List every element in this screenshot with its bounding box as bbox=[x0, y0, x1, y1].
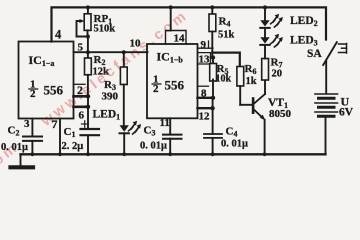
junction pin6 bbox=[86, 105, 90, 109]
capacitor C1 electrolytic bbox=[81, 107, 100, 154]
resistor R6 bbox=[237, 67, 252, 105]
wire switch to battery bbox=[325, 61, 327, 93]
junction LED1 ground rail bbox=[122, 152, 126, 156]
wire pin9 to R6 bbox=[212, 53, 240, 65]
transistor Q1 VT1 bbox=[252, 80, 265, 153]
svg-text:SA: SA bbox=[307, 48, 322, 60]
svg-text:9: 9 bbox=[201, 39, 207, 51]
svg-text:0. 01μ: 0. 01μ bbox=[221, 139, 248, 150]
label IC1-a 1/2 556 bbox=[28, 79, 63, 101]
resistor R3 bbox=[120, 52, 127, 125]
svg-text:12: 12 bbox=[199, 111, 211, 123]
svg-text:2: 2 bbox=[77, 83, 83, 97]
junction pin2 bbox=[86, 94, 90, 98]
junction VT1 emitter ground rail bbox=[263, 152, 267, 156]
svg-text:LED2: LED2 bbox=[290, 15, 318, 28]
watermark corner fragment bbox=[0, 139, 22, 187]
LED1 light arrows bbox=[129, 121, 142, 134]
svg-text:8050: 8050 bbox=[269, 108, 292, 120]
wire pin5 node A horizontal bbox=[74, 51, 148, 53]
svg-text:3: 3 bbox=[24, 118, 30, 130]
resistor R7 bbox=[262, 45, 269, 80]
svg-text:6: 6 bbox=[79, 110, 85, 122]
pin13 tab bbox=[198, 53, 211, 64]
battery U 6V bbox=[315, 94, 338, 153]
junction pin8 bbox=[211, 96, 215, 100]
wire pin3 bbox=[31, 119, 33, 137]
capacitor C2 bbox=[23, 137, 42, 154]
svg-text:10: 10 bbox=[130, 38, 142, 50]
junction C3 ground rail bbox=[168, 152, 172, 156]
LED LED1 bbox=[120, 125, 129, 153]
wire RP1 to node bbox=[87, 37, 89, 53]
IC op U1a body bbox=[19, 42, 74, 119]
watermark www.elecfans.com diagonal bbox=[38, 7, 192, 130]
wire pin12 stub bbox=[198, 107, 213, 109]
svg-text:6V: 6V bbox=[339, 107, 354, 119]
wire pin7 bbox=[59, 119, 61, 154]
svg-text:14: 14 bbox=[174, 33, 186, 45]
resistor R5 bbox=[210, 58, 217, 98]
svg-text:510k: 510k bbox=[94, 24, 116, 35]
junction pin14 rail bbox=[169, 5, 173, 9]
junction RP1 wiper bbox=[86, 35, 90, 39]
LED LED2 bbox=[260, 7, 269, 28]
svg-text:12k: 12k bbox=[93, 67, 110, 78]
junction pin7 ground rail bbox=[58, 152, 62, 156]
svg-text:7: 7 bbox=[52, 117, 58, 131]
LED LED3 bbox=[260, 28, 269, 45]
svg-text:5: 5 bbox=[78, 42, 84, 54]
svg-text:2: 2 bbox=[30, 88, 36, 100]
pin14 tab bbox=[166, 31, 187, 45]
wire pin11 bbox=[169, 118, 171, 134]
wire pin14 bbox=[170, 7, 172, 30]
switch SA contact bbox=[339, 44, 347, 54]
junction R4 rail bbox=[210, 5, 214, 9]
junction node pin5 bbox=[86, 50, 90, 54]
switch SA blade bbox=[323, 42, 337, 65]
junction C1 ground rail bbox=[86, 152, 90, 156]
capacitor C4 bbox=[204, 108, 222, 153]
svg-text:556: 556 bbox=[44, 83, 64, 98]
junction pin13 bbox=[211, 55, 215, 59]
ground bbox=[11, 154, 34, 167]
svg-text:556: 556 bbox=[165, 78, 185, 93]
wire bottom ground rail bbox=[21, 153, 326, 155]
wire pin8 to pin12 bbox=[212, 98, 214, 108]
resistor R4 bbox=[209, 7, 216, 57]
wire pin6 stub bbox=[74, 106, 89, 109]
svg-text:51k: 51k bbox=[218, 30, 235, 41]
LED2 light arrows bbox=[271, 14, 283, 27]
svg-text:2: 2 bbox=[153, 83, 159, 95]
svg-text:0. 01μ: 0. 01μ bbox=[1, 142, 28, 153]
pin8 tab bbox=[198, 85, 209, 87]
junction C4 ground rail bbox=[211, 152, 215, 156]
svg-text:4: 4 bbox=[55, 28, 62, 42]
junction R3 top bbox=[122, 50, 126, 54]
svg-text:13: 13 bbox=[199, 54, 211, 66]
svg-text:20: 20 bbox=[272, 69, 283, 80]
svg-text:0. 01μ: 0. 01μ bbox=[140, 141, 167, 152]
IC op U1b body bbox=[147, 44, 198, 118]
potentiometer RP1 bbox=[77, 7, 92, 36]
svg-text:2. 2μ: 2. 2μ bbox=[62, 141, 84, 152]
junction RP1 top rail bbox=[86, 5, 90, 9]
wire pin2 stub bbox=[74, 84, 89, 96]
svg-text:1k: 1k bbox=[246, 76, 257, 87]
wire top supply rail bbox=[52, 7, 327, 41]
svg-text:390: 390 bbox=[102, 91, 119, 103]
junction pin12 bbox=[210, 106, 214, 110]
wire pin8 stub bbox=[198, 97, 214, 99]
svg-text:8: 8 bbox=[201, 88, 207, 100]
pin9 tab bbox=[198, 41, 214, 48]
svg-text:LED1: LED1 bbox=[93, 109, 121, 122]
resistor R2 bbox=[85, 52, 92, 96]
svg-text:LED3: LED3 bbox=[290, 35, 318, 48]
LED3 light arrows bbox=[271, 34, 283, 47]
wire pin13 stub bbox=[211, 57, 215, 59]
junction LED2 rail bbox=[263, 5, 267, 9]
capacitor C3 bbox=[163, 135, 182, 154]
svg-text:10k: 10k bbox=[216, 74, 232, 85]
svg-text:11: 11 bbox=[160, 117, 170, 129]
wire pin2 to pin6 bbox=[87, 96, 89, 107]
junction C2 ground rail bbox=[31, 152, 35, 156]
label IC1-b 1/2 556 bbox=[152, 74, 185, 96]
